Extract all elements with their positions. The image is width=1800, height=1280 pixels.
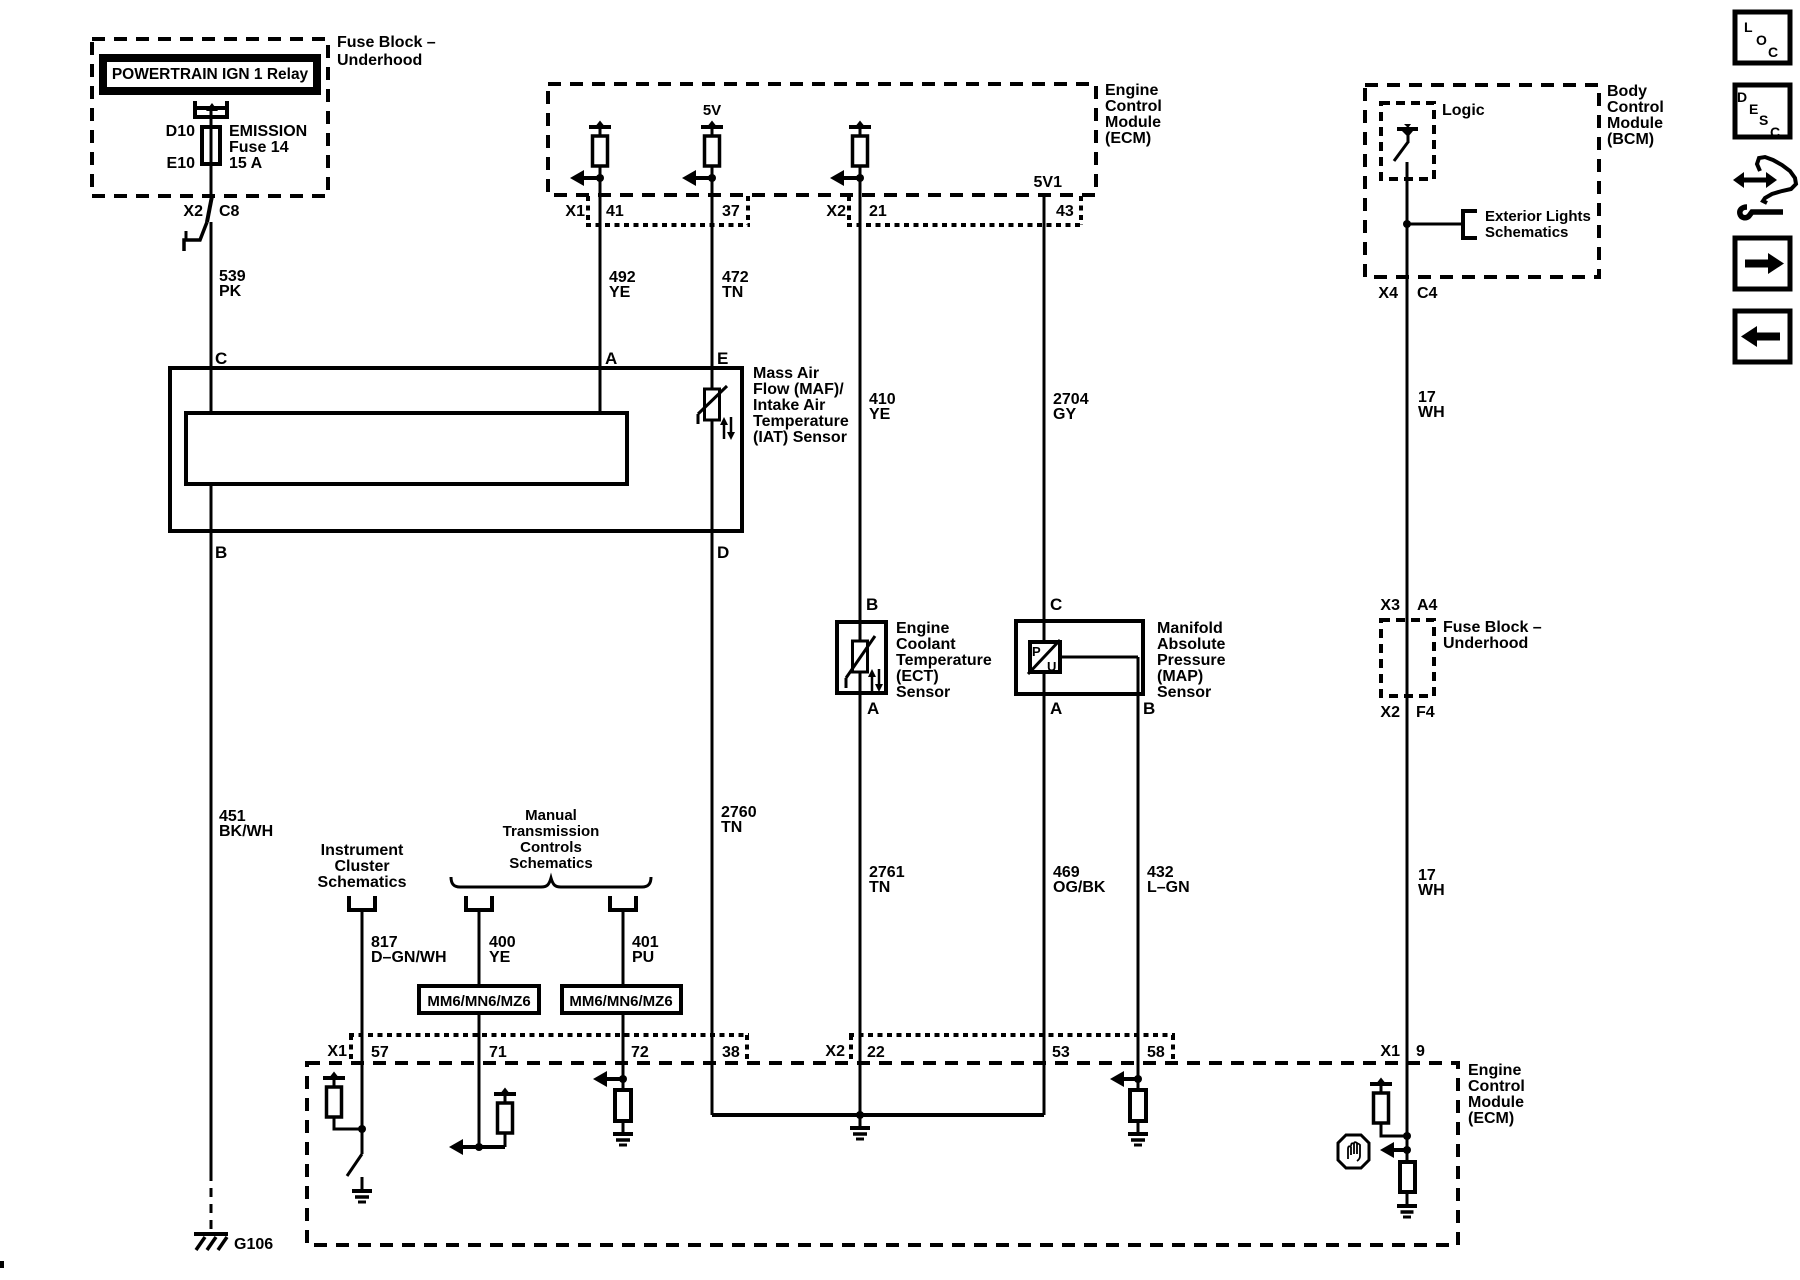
svg-text:Coolant: Coolant bbox=[896, 636, 956, 653]
option box MM6/MN6/MZ6 (wire 401) bbox=[562, 986, 681, 1013]
arrow internal signal pin 21 bbox=[842, 176, 860, 180]
svg-text:OG/BK: OG/BK bbox=[1053, 879, 1106, 896]
resistor pull-up ECM pin 41 bbox=[589, 125, 611, 129]
svg-text:Temperature: Temperature bbox=[896, 652, 992, 669]
svg-text:POWERTRAIN IGN 1 Relay: POWERTRAIN IGN 1 Relay bbox=[112, 66, 309, 83]
svg-text:D: D bbox=[717, 543, 729, 562]
wire ECM ground bus (38-22-53 common) bbox=[712, 1113, 1044, 1117]
svg-text:TN: TN bbox=[722, 284, 743, 301]
svg-text:(IAT) Sensor: (IAT) Sensor bbox=[753, 429, 847, 446]
icon forward arrow button bbox=[1735, 238, 1790, 289]
svg-text:(MAP): (MAP) bbox=[1157, 668, 1203, 685]
svg-text:Underhood: Underhood bbox=[337, 52, 422, 69]
fuse block underhood box (top left) bbox=[92, 39, 328, 196]
svg-text:D–GN/WH: D–GN/WH bbox=[371, 949, 447, 966]
svg-text:P: P bbox=[1032, 644, 1041, 659]
svg-text:22: 22 bbox=[867, 1044, 885, 1061]
connector strip X2 (21,43) bbox=[847, 196, 851, 225]
arrow internal signal pin 37 bbox=[694, 176, 712, 180]
svg-text:C4: C4 bbox=[1417, 285, 1438, 302]
wire 432 L-GN (MAP B to ECM 58) bbox=[1137, 657, 1140, 1090]
svg-text:Intake Air: Intake Air bbox=[753, 397, 825, 414]
svg-text:Control: Control bbox=[1105, 98, 1162, 115]
svg-text:72: 72 bbox=[631, 1044, 649, 1061]
resistor pull-up ECM pin 21 bbox=[849, 125, 871, 129]
resistor pull-up ECM pin 37 bbox=[701, 125, 723, 129]
icon DESC button bbox=[1735, 85, 1790, 137]
resistor pull-up ECM pin 71 bbox=[494, 1092, 516, 1096]
svg-text:Mass Air: Mass Air bbox=[753, 365, 819, 382]
svg-text:E: E bbox=[717, 349, 728, 368]
svg-text:9: 9 bbox=[1416, 1043, 1425, 1060]
relay output terminal bracket bbox=[193, 101, 197, 119]
svg-text:X1: X1 bbox=[327, 1043, 347, 1060]
arrow internal signal pin 41 bbox=[582, 176, 600, 180]
svg-text:EMISSION: EMISSION bbox=[229, 123, 307, 140]
ground internal pin 57 bbox=[361, 1177, 364, 1191]
wire 400 YE (to ECM 71) bbox=[478, 911, 481, 1147]
svg-text:Transmission: Transmission bbox=[503, 823, 600, 840]
svg-text:X2: X2 bbox=[826, 203, 846, 220]
icon harness routing (scribble with arrows) bbox=[1733, 157, 1796, 218]
svg-text:WH: WH bbox=[1418, 882, 1445, 899]
connector bracket wire 400 bbox=[466, 896, 492, 910]
svg-text:5V1: 5V1 bbox=[1034, 174, 1063, 191]
svg-text:Body: Body bbox=[1607, 83, 1647, 100]
svg-text:G106: G106 bbox=[234, 1236, 273, 1253]
wire 5V1 / 2704 GY / 469 OG-BK (ECM 43 to MAP C, A to ECM 53) bbox=[1043, 195, 1046, 1115]
svg-text:PU: PU bbox=[632, 949, 654, 966]
svg-text:A: A bbox=[605, 349, 617, 368]
svg-text:X4: X4 bbox=[1378, 285, 1398, 302]
svg-text:B: B bbox=[1143, 699, 1155, 718]
thermistor IAT symbol bbox=[705, 389, 720, 420]
svg-text:41: 41 bbox=[606, 203, 624, 220]
relay POWERTRAIN IGN 1 bbox=[103, 58, 317, 91]
module BCM box bbox=[1365, 85, 1599, 277]
wire 451 BK/WH (MAF B to G106) bbox=[210, 486, 213, 1172]
connector bracket instrument cluster bbox=[349, 896, 375, 910]
svg-text:WH: WH bbox=[1418, 404, 1445, 421]
connector strip X1 (41,37) bbox=[586, 196, 590, 225]
svg-text:TN: TN bbox=[869, 879, 890, 896]
svg-text:F4: F4 bbox=[1416, 704, 1435, 721]
arrow internal signal pin 72 bbox=[605, 1077, 623, 1081]
connector bracket wire 401 bbox=[610, 896, 636, 910]
svg-text:D: D bbox=[1737, 89, 1747, 105]
svg-text:C: C bbox=[1768, 44, 1778, 60]
svg-text:Control: Control bbox=[1607, 99, 1664, 116]
svg-text:Exterior Lights: Exterior Lights bbox=[1485, 208, 1591, 225]
switch contact pin 57 bbox=[347, 1154, 362, 1176]
logic box bbox=[1381, 103, 1434, 179]
svg-text:A: A bbox=[867, 699, 879, 718]
svg-text:X3: X3 bbox=[1380, 597, 1400, 614]
svg-text:Underhood: Underhood bbox=[1443, 635, 1528, 652]
wire 817 D-GN/WH (instrument cluster to ECM 57) bbox=[361, 911, 364, 1154]
ground internal pin 58 bbox=[1137, 1121, 1140, 1134]
transducer P/U symbol bbox=[1030, 642, 1060, 672]
junction dot exterior lights branch bbox=[1403, 220, 1411, 228]
svg-text:Engine: Engine bbox=[1105, 82, 1158, 99]
svg-text:Fuse Block –: Fuse Block – bbox=[337, 34, 436, 51]
svg-text:Controls: Controls bbox=[520, 839, 582, 856]
wire branch to exterior lights bbox=[1407, 223, 1463, 226]
wire X2-C8 pass-through slant bbox=[207, 196, 212, 222]
svg-text:Module: Module bbox=[1468, 1094, 1524, 1111]
bracket exterior lights schematics bbox=[1461, 209, 1465, 240]
sensor ECT box bbox=[837, 622, 886, 693]
svg-text:Manual: Manual bbox=[525, 807, 577, 824]
svg-text:(ECM): (ECM) bbox=[1105, 130, 1151, 147]
svg-text:C8: C8 bbox=[219, 203, 240, 220]
svg-text:S: S bbox=[1759, 112, 1768, 128]
svg-text:43: 43 bbox=[1056, 203, 1074, 220]
arrow internal signal pin 9 bbox=[1392, 1148, 1407, 1152]
svg-text:L: L bbox=[1744, 19, 1753, 35]
svg-text:L–GN: L–GN bbox=[1147, 879, 1190, 896]
svg-text:D10: D10 bbox=[166, 123, 195, 140]
svg-text:C: C bbox=[1770, 124, 1780, 140]
svg-text:E10: E10 bbox=[167, 155, 196, 172]
svg-text:57: 57 bbox=[371, 1044, 389, 1061]
svg-text:GY: GY bbox=[1053, 406, 1076, 423]
svg-text:Fuse 14: Fuse 14 bbox=[229, 139, 289, 156]
svg-text:B: B bbox=[866, 595, 878, 614]
ground internal pin 9 bbox=[1406, 1192, 1409, 1206]
svg-text:(ECT): (ECT) bbox=[896, 668, 939, 685]
icon LOC button bbox=[1735, 12, 1790, 63]
junction dot pin 57 bbox=[358, 1125, 366, 1133]
svg-text:A: A bbox=[1050, 699, 1062, 718]
junction dot pin 9 branch bbox=[1403, 1132, 1411, 1140]
ground internal pin 72 bbox=[622, 1121, 625, 1134]
svg-text:Module: Module bbox=[1105, 114, 1161, 131]
wire 472 TN / 2760 TN (ECM 37 to MAF E, D to ECM 38) bbox=[711, 166, 714, 1115]
module ECM box (bottom) bbox=[307, 1063, 1458, 1245]
svg-text:5V: 5V bbox=[703, 102, 721, 119]
svg-text:Schematics: Schematics bbox=[1485, 224, 1568, 241]
wire 451 dashed tail bbox=[210, 1172, 213, 1233]
svg-text:C: C bbox=[215, 349, 227, 368]
svg-text:X2: X2 bbox=[1380, 704, 1400, 721]
svg-text:(BCM): (BCM) bbox=[1607, 131, 1654, 148]
svg-text:37: 37 bbox=[722, 203, 740, 220]
svg-text:YE: YE bbox=[869, 406, 891, 423]
arrow internal signal pin 71 bbox=[461, 1145, 505, 1149]
svg-text:X2: X2 bbox=[183, 203, 203, 220]
sensor MAP box bbox=[1016, 621, 1143, 694]
svg-text:71: 71 bbox=[489, 1044, 507, 1061]
svg-text:YE: YE bbox=[609, 284, 631, 301]
ground internal bus (pins 38/22/53) bbox=[859, 1115, 862, 1128]
svg-text:YE: YE bbox=[489, 949, 511, 966]
svg-text:C: C bbox=[1050, 595, 1062, 614]
svg-text:Cluster: Cluster bbox=[334, 858, 389, 875]
svg-text:O: O bbox=[1756, 32, 1767, 48]
svg-text:B: B bbox=[215, 543, 227, 562]
wire MAP internal (P/U to pin B) bbox=[1060, 656, 1138, 659]
svg-text:Logic: Logic bbox=[1442, 102, 1485, 119]
svg-text:Module: Module bbox=[1607, 115, 1663, 132]
svg-text:X1: X1 bbox=[1380, 1043, 1400, 1060]
svg-text:BK/WH: BK/WH bbox=[219, 823, 273, 840]
fuse F14 EMISSION 15A bbox=[202, 127, 220, 164]
svg-text:MM6/MN6/MZ6: MM6/MN6/MZ6 bbox=[427, 993, 530, 1010]
svg-text:PK: PK bbox=[219, 283, 242, 300]
svg-text:X2: X2 bbox=[825, 1043, 845, 1060]
svg-text:38: 38 bbox=[722, 1044, 740, 1061]
svg-text:Sensor: Sensor bbox=[1157, 684, 1211, 701]
junction dot ground bus bbox=[856, 1111, 864, 1119]
brace manual transmission span bbox=[451, 877, 651, 887]
option box MM6/MN6/MZ6 (wire 400) bbox=[419, 986, 539, 1013]
svg-text:Sensor: Sensor bbox=[896, 684, 950, 701]
module ECM box (top) bbox=[548, 84, 1096, 195]
svg-text:Absolute: Absolute bbox=[1157, 636, 1226, 653]
driver/switch symbol in logic box bbox=[1397, 127, 1418, 131]
wire 539 PK (fuse to MAF pin C) bbox=[210, 119, 213, 196]
resistor pull-up ECM pin 9 branch bbox=[1370, 1082, 1392, 1086]
svg-text:Manifold: Manifold bbox=[1157, 620, 1223, 637]
connector strip X2 (22,53,58) bbox=[849, 1035, 853, 1063]
svg-text:Flow (MAF)/: Flow (MAF)/ bbox=[753, 381, 844, 398]
svg-text:Schematics: Schematics bbox=[318, 874, 407, 891]
thermistor ECT symbol bbox=[853, 641, 868, 672]
svg-text:Instrument: Instrument bbox=[321, 842, 404, 859]
arrow internal signal pin 58 bbox=[1122, 1077, 1138, 1081]
resistor pull-up ECM pin 57 bbox=[323, 1076, 345, 1080]
svg-text:A4: A4 bbox=[1417, 597, 1438, 614]
icon back arrow button bbox=[1735, 311, 1790, 362]
svg-text:U: U bbox=[1047, 659, 1056, 674]
svg-text:53: 53 bbox=[1052, 1044, 1070, 1061]
svg-text:21: 21 bbox=[869, 203, 887, 220]
wire 492 YE (ECM 41 to MAF A) bbox=[599, 166, 602, 411]
svg-text:Schematics: Schematics bbox=[509, 855, 592, 872]
resistor ECM pin 9 bbox=[1400, 1162, 1415, 1192]
svg-text:15 A: 15 A bbox=[229, 155, 263, 172]
sensor MAF inner element box bbox=[186, 413, 627, 484]
sensor MAF/IAT outer box bbox=[170, 368, 742, 531]
resistor ECM pin 58 bbox=[1130, 1090, 1146, 1121]
svg-text:TN: TN bbox=[721, 819, 742, 836]
ground G106 bbox=[194, 1232, 228, 1236]
page edge mark bbox=[0, 1261, 4, 1268]
svg-text:Pressure: Pressure bbox=[1157, 652, 1226, 669]
resistor ECM pin 72 bbox=[615, 1090, 631, 1121]
svg-text:Engine: Engine bbox=[1468, 1062, 1521, 1079]
svg-text:Fuse Block –: Fuse Block – bbox=[1443, 619, 1542, 636]
fuse block underhood pass-through box bbox=[1381, 620, 1434, 696]
svg-text:MM6/MN6/MZ6: MM6/MN6/MZ6 bbox=[569, 993, 672, 1010]
svg-text:Engine: Engine bbox=[896, 620, 949, 637]
wire 17 WH (BCM logic to ECM 9) bbox=[1406, 162, 1409, 1162]
svg-text:E: E bbox=[1749, 101, 1758, 117]
svg-text:X1: X1 bbox=[565, 203, 585, 220]
svg-text:58: 58 bbox=[1147, 1044, 1165, 1061]
wire 401 PU (to ECM 72) bbox=[622, 911, 625, 1090]
connector strip X1 (57,71,72,38) bbox=[349, 1035, 353, 1063]
wire 410 YE / 2761 TN (ECM 21 to ECT B, A to ECM 22) bbox=[859, 166, 862, 1115]
svg-text:Control: Control bbox=[1468, 1078, 1525, 1095]
icon stop-hand (serial data) bbox=[1338, 1135, 1369, 1168]
svg-text:(ECM): (ECM) bbox=[1468, 1110, 1514, 1127]
connector C8 hook symbol bbox=[184, 222, 207, 251]
svg-text:Temperature: Temperature bbox=[753, 413, 849, 430]
